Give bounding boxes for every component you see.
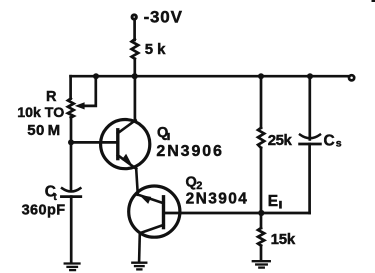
wire left rail	[70, 118, 73, 191]
resistor 15k	[258, 228, 264, 246]
svg-text:5k: 5k	[145, 41, 170, 58]
wire Ct bottom	[70, 197, 73, 263]
resistor 25k	[258, 128, 264, 148]
svg-text:Q: Q	[157, 125, 168, 141]
wire Cs bottom	[308, 144, 311, 213]
wire bus	[71, 75, 348, 78]
capacitor Ct	[62, 188, 80, 191]
svg-text:E: E	[268, 193, 278, 210]
svg-text:25k: 25k	[268, 132, 293, 149]
wire Q1-Q2 link	[136, 169, 138, 195]
svg-text:15k: 15k	[271, 231, 296, 248]
svg-text:t: t	[53, 191, 57, 203]
node bus/5k	[132, 73, 138, 79]
wiper arrow	[75, 102, 85, 109]
wire Q1 collector up	[134, 76, 137, 120]
wire	[133, 59, 136, 76]
svg-text:50: 50	[27, 122, 45, 139]
svg-text:360pF: 360pF	[22, 202, 66, 218]
svg-text:10k TO: 10k TO	[17, 105, 64, 121]
capacitor Cs	[300, 135, 320, 139]
wire wiper	[84, 76, 96, 106]
terminal -30V	[132, 15, 136, 19]
scan speck top-right corner	[372, 0, 375, 2]
svg-text:2N3906: 2N3906	[156, 143, 223, 160]
ground left	[65, 264, 80, 271]
svg-text:s: s	[336, 138, 342, 150]
wire	[133, 20, 136, 40]
transistor Q2	[129, 186, 180, 237]
wire Q2 emitter down	[138, 233, 141, 261]
wire 15k bottom	[260, 246, 263, 261]
node bus/wiper	[93, 73, 99, 79]
svg-text:R: R	[46, 89, 57, 105]
transistor Q1	[71, 120, 150, 169]
resistor 5k	[132, 39, 139, 59]
ground middle	[132, 263, 146, 270]
node E1	[258, 210, 264, 216]
wire 25k bottom	[260, 148, 263, 213]
resistor R	[68, 99, 74, 118]
node rail/Q1 base	[68, 139, 74, 145]
node bus/Cs	[307, 73, 313, 79]
svg-text:C: C	[324, 133, 335, 150]
svg-text:Q: Q	[186, 174, 197, 190]
wire Q2 base / E1	[164, 212, 310, 215]
svg-text:M: M	[48, 122, 61, 139]
svg-text:2N3904: 2N3904	[186, 190, 249, 207]
terminal output	[349, 75, 354, 80]
node bus/25k	[258, 73, 264, 79]
ground right	[253, 261, 270, 267]
wire Cs top	[308, 76, 311, 139]
wire 25k top	[260, 76, 263, 128]
wire 15k top	[260, 213, 263, 228]
wire R top	[69, 76, 72, 98]
svg-text:-30V: -30V	[144, 8, 183, 27]
